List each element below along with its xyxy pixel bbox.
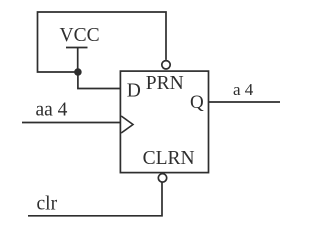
VCC label	[60, 25, 100, 46]
wire from junction to D pin	[78, 72, 121, 89]
wire Q output	[209, 101, 281, 103]
pin label PRN	[146, 73, 184, 94]
svg-text:aa 4: aa 4	[36, 99, 68, 120]
pin label D	[127, 80, 141, 101]
node label clr	[37, 194, 58, 215]
wire aa4 input	[22, 122, 120, 124]
pin label Q	[190, 92, 204, 113]
inversion bubble CLRN	[158, 174, 166, 182]
svg-text:VCC: VCC	[60, 25, 100, 46]
pin label CLRN	[143, 148, 195, 169]
svg-text:clr: clr	[37, 194, 58, 215]
wire clr input	[28, 182, 162, 216]
node label a4	[233, 80, 254, 99]
svg-text:Q: Q	[190, 92, 204, 113]
junction dot	[74, 68, 82, 76]
svg-text:PRN: PRN	[146, 73, 184, 94]
flip-flop U1 body	[120, 71, 208, 173]
inversion bubble PRN	[162, 61, 170, 69]
clock chevron	[121, 116, 133, 133]
VCC symbol stem	[77, 48, 79, 73]
VCC symbol bar	[66, 47, 88, 49]
svg-text:a 4: a 4	[233, 80, 254, 99]
wire VCC net: left riser and top run to PRN	[38, 12, 167, 72]
svg-text:CLRN: CLRN	[143, 148, 195, 169]
svg-text:D: D	[127, 80, 141, 101]
node label aa4	[36, 99, 68, 120]
